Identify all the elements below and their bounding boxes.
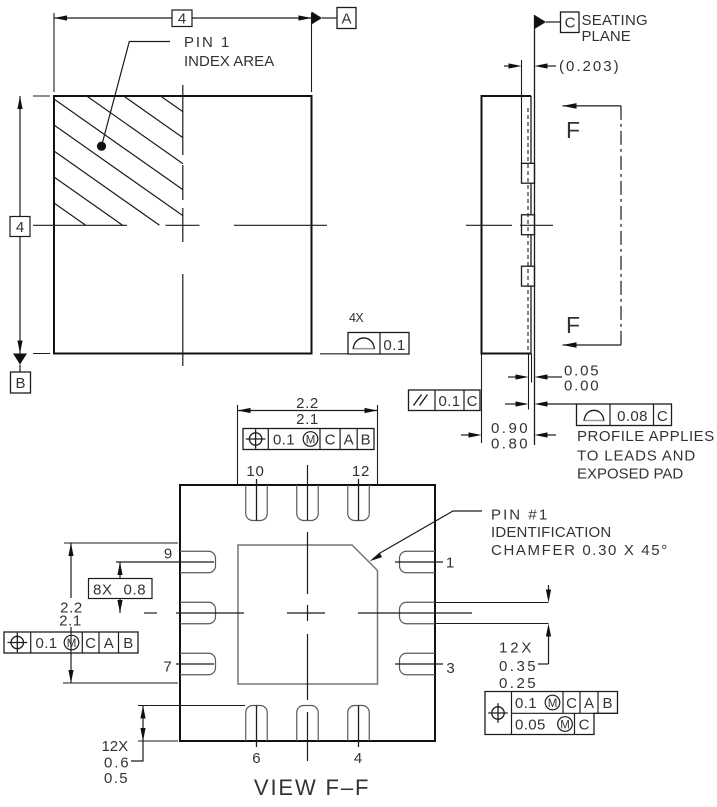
svg-text:A: A bbox=[104, 635, 114, 652]
svg-text:C: C bbox=[467, 393, 478, 410]
side view horizontal centerline bbox=[466, 224, 512, 226]
svg-text:VIEW F–F: VIEW F–F bbox=[254, 775, 370, 800]
svg-text:C: C bbox=[566, 695, 577, 712]
datum C symbol with SEATING PLANE note bbox=[535, 15, 547, 29]
svg-text:0.1: 0.1 bbox=[438, 393, 460, 410]
bottom view: package outline bbox=[180, 485, 435, 741]
vertical dimension 4 (left) bbox=[19, 96, 21, 354]
lead length dimension 12X 0.6 / 0.5 bbox=[138, 705, 245, 707]
top view horizontal centerline bbox=[33, 224, 127, 226]
svg-text:0.08: 0.08 bbox=[617, 408, 648, 425]
svg-text:4: 4 bbox=[178, 11, 186, 28]
section arrow F top bbox=[563, 105, 622, 107]
section line F-F (dash-dot) bbox=[620, 106, 622, 345]
svg-text:CHAMFER 0.30 X 45°: CHAMFER 0.30 X 45° bbox=[491, 542, 668, 559]
top view vertical centerline bbox=[182, 85, 184, 155]
feature control frame: profile 0.08 C bbox=[577, 404, 672, 426]
svg-text:F: F bbox=[566, 312, 580, 338]
svg-text:C: C bbox=[657, 408, 668, 425]
svg-text:M: M bbox=[306, 434, 316, 446]
svg-text:PIN #1: PIN #1 bbox=[491, 507, 548, 524]
svg-text:0.8: 0.8 bbox=[124, 582, 147, 599]
pin 1 chamfer leader with note bbox=[379, 511, 483, 554]
svg-text:4: 4 bbox=[354, 750, 362, 767]
svg-text:IDENTIFICATION: IDENTIFICATION bbox=[491, 524, 612, 541]
datum B symbol bbox=[13, 354, 27, 365]
svg-text:0.90: 0.90 bbox=[491, 420, 528, 437]
feature control frame: position 0.1 M C A B (top) bbox=[243, 429, 374, 450]
svg-text:B: B bbox=[602, 695, 612, 712]
svg-text:8X: 8X bbox=[93, 582, 113, 599]
seating plane line bbox=[534, 15, 536, 445]
svg-text:C: C bbox=[565, 15, 576, 32]
svg-text:0.1: 0.1 bbox=[383, 337, 405, 354]
bottom view horizontal centerline bbox=[144, 612, 157, 614]
top view: package body outline (4x4 square) bbox=[54, 96, 312, 354]
side view: package body profile bbox=[482, 96, 532, 354]
svg-text:B: B bbox=[15, 375, 25, 392]
svg-text:6: 6 bbox=[252, 750, 260, 767]
svg-text:4X: 4X bbox=[349, 311, 365, 325]
feature control frame: position 0.1 M C A B / 0.05 M C (two rows) bbox=[485, 692, 618, 735]
pitch dimension 8X 0.8 bbox=[116, 561, 214, 563]
body bottom surface extension line bbox=[528, 354, 530, 410]
svg-text:0.00: 0.00 bbox=[564, 378, 599, 395]
svg-text:PLANE: PLANE bbox=[582, 28, 632, 45]
svg-text:0.5: 0.5 bbox=[104, 770, 128, 787]
dimension (0.203) lead frame thickness bbox=[504, 65, 509, 67]
svg-text:SEATING: SEATING bbox=[582, 12, 649, 29]
svg-text:C: C bbox=[579, 717, 590, 734]
side view lead rectangles bbox=[522, 163, 535, 183]
bottom view vertical centerline bbox=[307, 465, 309, 520]
svg-text:12X: 12X bbox=[102, 738, 129, 755]
pin 1 index dot bbox=[97, 142, 106, 151]
svg-text:M: M bbox=[560, 719, 570, 731]
svg-text:(0.203): (0.203) bbox=[559, 58, 619, 75]
svg-text:M: M bbox=[67, 638, 77, 650]
svg-text:C: C bbox=[85, 635, 96, 652]
svg-text:EXPOSED PAD: EXPOSED PAD bbox=[577, 466, 684, 483]
svg-text:A: A bbox=[584, 695, 594, 712]
feature control frame: position 0.1 M C A B (left) bbox=[4, 632, 138, 653]
svg-text:0.1: 0.1 bbox=[273, 432, 295, 449]
side view hidden line (dashed) bbox=[527, 108, 529, 350]
svg-text:INDEX AREA: INDEX AREA bbox=[184, 53, 275, 70]
lead terminals (12 slots) bbox=[180, 485, 435, 741]
svg-text:PIN 1: PIN 1 bbox=[184, 34, 230, 51]
svg-text:7: 7 bbox=[163, 659, 171, 676]
svg-text:TO LEADS AND: TO LEADS AND bbox=[577, 448, 696, 465]
section arrow F bottom bbox=[563, 344, 622, 346]
svg-text:0.05: 0.05 bbox=[515, 717, 546, 734]
lead centerline ticks bbox=[256, 479, 258, 521]
svg-text:PROFILE APPLIES: PROFILE APPLIES bbox=[577, 428, 715, 445]
svg-text:0.1: 0.1 bbox=[515, 695, 537, 712]
svg-text:M: M bbox=[548, 698, 558, 710]
horizontal dimension 4 (top) bbox=[54, 17, 312, 19]
svg-text:2.1: 2.1 bbox=[296, 411, 319, 428]
svg-text:2.2: 2.2 bbox=[296, 395, 319, 412]
svg-text:1: 1 bbox=[446, 555, 454, 572]
lead width dimension 12X 0.35 / 0.25 bbox=[436, 602, 549, 604]
svg-text:A: A bbox=[341, 11, 351, 28]
svg-text:0.25: 0.25 bbox=[499, 675, 536, 692]
svg-text:F: F bbox=[566, 117, 580, 143]
svg-text:10: 10 bbox=[246, 463, 264, 480]
dimension 2.2 / 2.1 (top of bottom view) bbox=[237, 405, 239, 484]
svg-text:B: B bbox=[361, 432, 371, 449]
svg-text:0.80: 0.80 bbox=[491, 436, 528, 453]
svg-text:0.6: 0.6 bbox=[104, 755, 129, 772]
dimension 2.2 / 2.1 (left of bottom view) bbox=[64, 542, 178, 544]
svg-text:0.1: 0.1 bbox=[36, 635, 58, 652]
svg-text:12X: 12X bbox=[499, 640, 532, 657]
feature control frame: parallelism 0.1 C bbox=[409, 390, 481, 411]
svg-text:4: 4 bbox=[16, 219, 24, 236]
svg-text:B: B bbox=[123, 635, 133, 652]
svg-text:A: A bbox=[344, 432, 354, 449]
side view lead surface extension line bbox=[521, 60, 523, 163]
datum A symbol bbox=[312, 12, 323, 25]
profile tolerance leader arrows bbox=[505, 403, 516, 405]
svg-text:3: 3 bbox=[446, 660, 454, 677]
svg-text:9: 9 bbox=[164, 546, 172, 563]
svg-text:2.1: 2.1 bbox=[59, 613, 82, 630]
dimension 0.90 / 0.80 package thickness bbox=[481, 354, 483, 444]
dimension 0.05 / 0.00 standoff bbox=[508, 376, 516, 378]
svg-text:C: C bbox=[325, 432, 336, 449]
svg-text:0.35: 0.35 bbox=[499, 658, 536, 675]
svg-text:12: 12 bbox=[352, 463, 370, 480]
pin 1 index area hatching bbox=[54, 96, 183, 225]
exposed thermal pad with pin 1 chamfer bbox=[238, 545, 378, 684]
pin 1 leader line bbox=[102, 42, 171, 147]
